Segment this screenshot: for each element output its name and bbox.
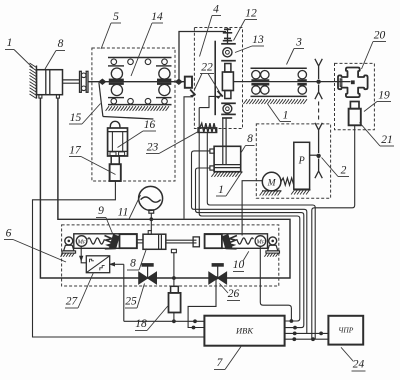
device 17 body <box>110 164 121 181</box>
lever cylinder rod <box>166 239 197 241</box>
motor ground hatch <box>262 190 282 192</box>
gauge 11 wave <box>141 197 161 202</box>
svg-text:18: 18 <box>135 318 147 330</box>
right lever MF circle <box>255 236 266 247</box>
svg-text:24: 24 <box>353 359 365 371</box>
main shaft left section <box>88 81 185 83</box>
cardan fork top upper <box>315 59 322 79</box>
tray diagonal 15 <box>99 83 103 117</box>
unit3 upper pads <box>251 79 269 82</box>
heater 23 lead (route to CHPR line) <box>207 133 315 340</box>
left lever pivot <box>65 237 73 245</box>
bearing 13 top bar <box>221 43 236 45</box>
wire from tick22 right (route to IVK) <box>199 96 218 107</box>
link lines <box>137 239 143 241</box>
unit14 upper pads <box>109 79 124 82</box>
pump ground hatch <box>294 189 311 191</box>
wire MF right down <box>260 247 291 322</box>
left lever MF circle <box>76 236 87 247</box>
svg-text:4: 4 <box>213 4 219 16</box>
cardan fork mid lower <box>315 159 322 179</box>
svg-text:7: 7 <box>217 357 224 369</box>
dashed box unit 2 <box>256 124 330 198</box>
wire motor M (from lever 10) <box>242 181 262 236</box>
svg-text:26: 26 <box>228 288 240 300</box>
specimen body <box>222 72 233 91</box>
svg-text:14: 14 <box>151 11 163 23</box>
sensor 18 body <box>169 293 181 313</box>
unit14 bottom small rollers <box>111 98 117 104</box>
motor M circle <box>262 172 281 191</box>
cross center square dot <box>351 81 354 84</box>
hydraulic cylinder 8a body <box>37 70 63 95</box>
lever cylinder 8b body <box>143 234 166 249</box>
svg-text:3: 3 <box>295 37 302 49</box>
svg-text:11: 11 <box>118 207 129 219</box>
coupling zigzag <box>281 178 294 185</box>
svg-text:MF: MF <box>77 239 86 246</box>
wall (hatched support, item 1) <box>36 66 38 99</box>
svg-text:ИВК: ИВК <box>235 326 254 336</box>
wire from shaft node to slip rings <box>179 32 226 82</box>
hydraulic loop pipe <box>40 98 290 278</box>
unit3 ground hatch <box>243 99 307 104</box>
cardan fork top lower <box>315 85 322 100</box>
IVK box 7 <box>204 316 284 346</box>
svg-text:21: 21 <box>381 134 393 146</box>
wire IVK left stub 1 <box>124 320 205 322</box>
unit14 lower pads <box>109 82 124 85</box>
svg-text:22: 22 <box>201 62 213 74</box>
junction dot valve26 tee <box>214 276 218 280</box>
right mount block <box>205 234 222 248</box>
wire from device 17 to IVK <box>33 181 205 337</box>
wall hatch <box>30 63 37 99</box>
bearing lower top bar <box>221 102 236 104</box>
CHPR box 24 <box>328 316 363 345</box>
valve 26 <box>209 272 218 284</box>
box 27 glyph lower <box>100 266 105 271</box>
dashed box unit 19 <box>335 63 375 129</box>
svg-text:13: 13 <box>252 34 264 46</box>
unit3 bottom bar <box>251 95 307 97</box>
bearing 13 roller <box>223 48 232 57</box>
wire port lower (route) <box>196 168 304 328</box>
junction dot sensor line tee <box>172 276 176 280</box>
svg-text:15: 15 <box>70 112 82 124</box>
strain tick 22 right <box>218 91 223 97</box>
svg-text:MF: MF <box>255 239 264 246</box>
cylinder 8m port lower <box>210 166 214 170</box>
pump to cardan stub <box>310 154 319 156</box>
main shaft right section <box>233 81 350 83</box>
cardan joint dot at pump <box>316 154 320 158</box>
flange coupling bolts <box>81 73 86 78</box>
svg-text:16: 16 <box>144 119 156 131</box>
flange coupling plates <box>80 71 82 92</box>
left lever claw <box>105 236 116 249</box>
svg-text:2: 2 <box>341 165 347 177</box>
svg-text:1: 1 <box>218 184 224 196</box>
device 16 dome top <box>110 121 120 128</box>
bearing lower bottom bar <box>221 113 236 115</box>
cylinder 8m body <box>214 146 241 171</box>
svg-text:23: 23 <box>147 142 159 154</box>
junction dot gauge tee <box>149 217 153 221</box>
svg-text:19: 19 <box>378 90 390 102</box>
sensor 21 neck <box>350 102 359 109</box>
shaft flange tick <box>340 79 342 86</box>
shaft node diamond B <box>176 79 182 84</box>
right lever bar <box>205 234 268 249</box>
specimen neck lower <box>225 91 231 99</box>
device 16 band top <box>108 131 128 133</box>
svg-text:8: 8 <box>58 38 64 50</box>
right lever claw <box>226 236 237 249</box>
wire into box27 right (from valve line) <box>110 263 124 265</box>
strain tick 22 left <box>190 90 195 96</box>
cylinder 8a rod <box>63 79 80 81</box>
slip ring bars <box>224 28 231 30</box>
cylinder 8a piston lines <box>45 70 47 95</box>
tray bottom line <box>103 117 153 120</box>
wire IVK right stub 3 to CHPR <box>285 332 329 334</box>
gauge 11 pipe <box>150 213 152 231</box>
unit14 upper big rollers <box>111 68 122 79</box>
wire valve26 control <box>188 278 216 328</box>
unit14 bottom bar <box>108 104 172 106</box>
bearing lower roller <box>223 104 232 113</box>
wire IVK right stub 4 to CHPR <box>285 338 329 340</box>
pump P box <box>294 142 310 189</box>
svg-text:8: 8 <box>247 133 253 145</box>
right lever pivot <box>269 237 277 245</box>
cylinder 8m piston plates <box>214 164 241 166</box>
cylinder 8m port upper <box>210 149 214 153</box>
rod bottom fitting <box>171 249 176 252</box>
wire port upper (route) <box>192 151 307 334</box>
sensor 18 line from cylinder <box>173 253 175 286</box>
svg-text:1: 1 <box>7 37 13 49</box>
sensor 21 body <box>349 109 361 126</box>
device 16 band bottom <box>108 150 128 152</box>
svg-text:6: 6 <box>6 228 12 240</box>
valve 25 <box>139 272 148 284</box>
load cell (torque sensor) after diamond B <box>185 77 192 88</box>
box 27 regulator <box>86 256 109 273</box>
svg-text:20: 20 <box>374 30 386 42</box>
cardan dash-dot section <box>318 102 320 121</box>
dashed lever unit box <box>62 225 279 286</box>
left lever bar <box>74 234 137 249</box>
heater 23 zigzag <box>200 123 216 132</box>
sensor 18 neck <box>171 286 179 293</box>
support column <box>214 41 216 116</box>
junction dot MF/tick wire <box>290 319 294 323</box>
unit14 lower big rollers <box>111 84 122 95</box>
svg-text:1: 1 <box>283 110 289 122</box>
dashed box unit 5 <box>92 48 175 181</box>
unit14 lower cage bars <box>108 97 124 99</box>
rod coupler <box>193 237 199 247</box>
device 16 neck <box>111 156 119 164</box>
wire sensor 21 (route to CHPR) <box>312 125 355 339</box>
svg-text:12: 12 <box>245 8 257 20</box>
right lever spring <box>237 238 254 244</box>
unit3 top rollers <box>252 71 260 79</box>
junction dot port lower stub <box>293 326 297 330</box>
unit14 ground hatch <box>106 106 169 111</box>
unit14 upper cage bars <box>108 65 124 67</box>
lever cylinder 8b piston <box>158 234 160 249</box>
unit14 top small rollers <box>111 59 117 65</box>
shaft node diamond A <box>99 79 105 84</box>
device 16 inner columns <box>111 132 113 152</box>
dashed box unit 4 <box>194 28 242 129</box>
specimen neck upper <box>225 64 231 73</box>
box 27 glyph upper <box>90 259 94 262</box>
heater 23 box <box>198 128 217 133</box>
slip ring unit 12 stem <box>227 28 229 45</box>
cylinder 8m ground hatch <box>214 171 243 173</box>
gauge 11 circle <box>139 186 163 210</box>
svg-text:ЧПР: ЧПР <box>338 326 354 335</box>
device 16 nut squares <box>110 152 116 156</box>
cross coupling 20 <box>338 68 368 98</box>
device 16 body <box>108 128 128 156</box>
wire MF left to box27 <box>81 247 86 263</box>
rod top plate <box>222 117 232 119</box>
wire from tick22 left <box>184 97 193 219</box>
svg-text:9: 9 <box>98 205 104 217</box>
sensor 18 drop <box>173 313 175 322</box>
lever cylinder 8b top stub <box>148 231 151 235</box>
gauge 11 fitting <box>149 210 154 213</box>
left mount block <box>120 234 137 248</box>
svg-text:25: 25 <box>125 296 137 308</box>
svg-text:27: 27 <box>66 296 79 308</box>
left lever spring <box>88 238 105 244</box>
bearing 13 bottom bar <box>221 60 236 62</box>
svg-text:M: M <box>267 178 277 188</box>
unit14 top bar <box>108 57 172 59</box>
svg-text:P: P <box>298 156 305 167</box>
unit3 lower pads <box>251 83 269 86</box>
piston rod pair (spindle loading) <box>222 118 224 165</box>
cylinder 8a feet <box>39 95 42 98</box>
junction dot sensor drop <box>172 319 176 323</box>
cardan fork mid upper <box>315 123 322 153</box>
svg-text:5: 5 <box>113 11 119 23</box>
cardan joint dot at shaft <box>316 80 320 84</box>
svg-text:8: 8 <box>130 258 136 270</box>
svg-text:17: 17 <box>69 145 82 157</box>
unit3 bottom rollers <box>252 86 260 94</box>
unit3 top bar <box>251 67 307 69</box>
